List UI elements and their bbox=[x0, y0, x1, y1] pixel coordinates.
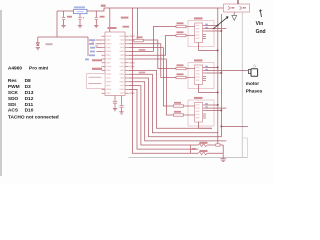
connector JP1 box bbox=[87, 74, 105, 89]
label L1 100uH bbox=[74, 6, 85, 8]
wire Q2 source down bbox=[199, 85, 218, 93]
svg-text:SDI: SDI bbox=[8, 102, 17, 108]
wire R1 to Q1 bbox=[186, 26, 191, 28]
wire cap gnd stub C1 bbox=[63, 20, 65, 25]
sheet frame step bbox=[242, 138, 247, 158]
label R6 bbox=[174, 111, 181, 113]
annotation arrow to connector bbox=[213, 17, 228, 29]
wire phase V out bbox=[206, 70, 248, 72]
label C3 value bbox=[100, 16, 105, 18]
label T1 name bbox=[194, 17, 203, 19]
net label BH bbox=[139, 72, 146, 74]
transistor pair Q1 body bbox=[195, 23, 203, 43]
svg-text:A4960: A4960 bbox=[8, 65, 22, 71]
X1 pin labels bbox=[231, 7, 246, 9]
wire R5 to Q3 bbox=[184, 105, 192, 107]
wire VBB to IC pin drop bbox=[109, 8, 111, 32]
label C1 value bbox=[67, 16, 72, 18]
wire sense SC bbox=[129, 78, 222, 137]
Q2 blue net tags bbox=[205, 66, 208, 71]
wire R3 to Q2 bbox=[186, 68, 191, 70]
U1 left pins bbox=[102, 36, 106, 93]
wire VBB rail mid bbox=[87, 8, 224, 11]
label R2 bbox=[177, 31, 184, 33]
label R3 bbox=[177, 64, 184, 66]
X1 pin 2 bbox=[240, 6, 242, 10]
Q2 pins bbox=[191, 68, 206, 81]
wire Q3 mid to rail B bbox=[206, 110, 221, 112]
wire left supply drop bbox=[56, 11, 58, 37]
svg-text:ACS: ACS bbox=[8, 108, 19, 114]
wire VBB long drop bbox=[132, 8, 198, 153]
svg-text:D10: D10 bbox=[25, 108, 34, 114]
label D1 bbox=[46, 43, 53, 45]
junction dots bbox=[217, 67, 222, 94]
Q1 inner text bbox=[196, 25, 200, 39]
vertical rail B bbox=[220, 14, 222, 137]
label VBB bbox=[101, 5, 106, 7]
FET block 2 group bbox=[176, 59, 248, 93]
wire cap stub C2 bbox=[79, 14, 81, 17]
U1 inner pin names left bbox=[106, 35, 111, 93]
wire Q3 source down bbox=[199, 122, 212, 128]
wire phase U out bbox=[206, 28, 226, 30]
svg-text:Res: Res bbox=[8, 78, 17, 84]
JP1 pin lines bbox=[89, 77, 102, 83]
Q1 pins bbox=[191, 26, 206, 39]
motor connector icon bbox=[248, 69, 257, 77]
U1 inner pin names right bbox=[119, 35, 124, 93]
svg-text:Vin: Vin bbox=[256, 21, 264, 27]
crystal caps near U1 bbox=[92, 42, 98, 47]
capacitor C5 under U1 right bbox=[120, 96, 124, 112]
svg-text:SCK: SCK bbox=[8, 90, 19, 96]
capacitor C1 bbox=[62, 18, 65, 20]
wire reset branch bbox=[38, 36, 88, 38]
transistor pair Q2 body bbox=[195, 65, 203, 85]
wire gate AL bbox=[129, 36, 176, 56]
ground D1 bbox=[36, 48, 40, 50]
halfbridge box 1 bbox=[188, 21, 214, 47]
ground C5 bbox=[119, 112, 123, 114]
wires U1 left pins bbox=[96, 40, 102, 51]
wire cap gnd stub C3 bbox=[95, 20, 97, 25]
wire gnd drop sense bbox=[222, 145, 224, 159]
label T2 name bbox=[194, 59, 203, 61]
sheet frame bottom line bbox=[129, 157, 248, 159]
annotation arrow from Vin text bbox=[260, 10, 262, 17]
wire R6 to Q3 bbox=[184, 114, 192, 116]
wire gate AH bbox=[129, 27, 176, 52]
label U1 name bbox=[108, 27, 117, 29]
wire phase return bbox=[129, 82, 227, 141]
wire gate BH bbox=[129, 40, 176, 69]
svg-text:D12: D12 bbox=[25, 96, 34, 102]
FET block 3 group bbox=[174, 97, 227, 128]
ground sense bbox=[220, 159, 226, 162]
wire R4 to Q2 bbox=[186, 77, 191, 79]
wire IC left vertical bbox=[87, 37, 89, 56]
net labels left of U1 bbox=[85, 39, 95, 60]
wire csense minus bbox=[129, 89, 199, 149]
op IC U1 A4960 body bbox=[105, 32, 125, 96]
Q3 pins bbox=[191, 105, 206, 118]
svg-text:D11: D11 bbox=[25, 102, 34, 108]
wire Q1 drain to rail bbox=[206, 25, 218, 27]
svg-text:D13: D13 bbox=[25, 90, 34, 96]
sense resistor R8 bbox=[198, 152, 207, 155]
wire cap stub C3 bbox=[95, 11, 97, 17]
wire R7 right bbox=[207, 144, 223, 146]
capacitor C6 horizontal bbox=[134, 39, 144, 42]
inductor L1 bbox=[74, 9, 88, 13]
Q3 inner text bbox=[196, 104, 200, 118]
right pin stub labels bbox=[130, 35, 135, 94]
wire R2 to Q1 bbox=[186, 35, 191, 37]
Q3 blue net tags bbox=[205, 103, 208, 108]
junction dots bbox=[217, 104, 222, 111]
U1 right pins bbox=[125, 36, 129, 93]
transistor pair Q3 body bbox=[195, 103, 203, 123]
wires U1 right to gate resistors bbox=[129, 27, 176, 116]
vertical rail A VBB right bbox=[217, 8, 219, 144]
svg-text:D8: D8 bbox=[25, 78, 31, 84]
X1 pin 1 bbox=[228, 6, 230, 10]
svg-text:TACHO not connected: TACHO not connected bbox=[8, 114, 59, 120]
wire Q1 source down bbox=[199, 43, 218, 51]
capacitor C3 bbox=[95, 18, 98, 20]
resistor R5 bbox=[174, 105, 184, 107]
svg-text:Phases: Phases bbox=[246, 88, 263, 93]
Q2 inner text bbox=[196, 67, 200, 81]
wire csense plus bbox=[129, 86, 199, 145]
svg-text:SDO: SDO bbox=[8, 96, 19, 102]
wire Vin top bbox=[237, 0, 239, 4]
label R9 bbox=[192, 148, 196, 150]
wire sense SA bbox=[129, 70, 212, 128]
label R1 bbox=[177, 22, 184, 24]
sheet frame vertical line bbox=[241, 13, 243, 158]
earth triangle bbox=[232, 16, 237, 21]
label R7 bbox=[200, 142, 208, 144]
capacitor C4 under U1 bbox=[113, 96, 117, 109]
ground C4 bbox=[113, 109, 117, 111]
svg-text:PWM: PWM bbox=[8, 84, 20, 90]
wire cap stub C1 bbox=[63, 11, 65, 17]
ground C2 bbox=[78, 25, 82, 27]
label R8 bbox=[200, 150, 208, 152]
net label AH bbox=[139, 49, 146, 51]
icon notch bbox=[253, 65, 255, 67]
wire cap gnd stub C2 bbox=[79, 20, 81, 25]
wire low rail out bbox=[221, 126, 248, 128]
label U1 value bbox=[123, 26, 130, 28]
wire gate CH bbox=[129, 48, 174, 106]
label JP1 net bbox=[92, 68, 102, 70]
connector X1 Vin box bbox=[224, 4, 250, 12]
capacitor C2 polarized bbox=[78, 17, 83, 19]
resistor R2 bbox=[176, 34, 186, 36]
halfbridge box 3 bbox=[188, 100, 214, 126]
halfbridge box 2 bbox=[188, 63, 214, 89]
wire sense SB bbox=[129, 74, 218, 133]
svg-text:Gnd: Gnd bbox=[256, 29, 266, 35]
wire VREG drop bbox=[137, 8, 139, 39]
label T3 name bbox=[194, 97, 203, 99]
sense resistor R7 bbox=[198, 143, 207, 146]
resistor R1 bbox=[176, 25, 186, 27]
wire diode stub bbox=[37, 37, 39, 43]
resistor R6 bbox=[174, 114, 184, 116]
Q1 blue net tags bbox=[205, 24, 208, 29]
FET block 1 group bbox=[176, 17, 226, 51]
wire Q3 drain to rail bbox=[206, 104, 218, 106]
ground C1 bbox=[61, 25, 65, 27]
resistor R3 bbox=[176, 67, 186, 69]
ground C3 bbox=[94, 25, 98, 27]
wire gate BL bbox=[129, 44, 176, 78]
bus wires U1 to bottom bbox=[129, 8, 227, 153]
svg-text:Pro mini: Pro mini bbox=[29, 65, 48, 71]
wire gate CL bbox=[129, 59, 174, 115]
svg-text:motor: motor bbox=[246, 81, 259, 86]
screenshot left window edge bbox=[0, 10, 2, 176]
svg-text:D3: D3 bbox=[25, 84, 31, 90]
junction dots bbox=[217, 25, 222, 52]
wire Q1 mid to rail B bbox=[206, 30, 221, 32]
wire R8 right bbox=[207, 152, 223, 154]
label R4 bbox=[177, 73, 184, 75]
label C6 bbox=[137, 36, 143, 38]
series element R10 bbox=[216, 144, 220, 146]
wire VBB rail left bbox=[57, 10, 74, 12]
wire gnd pin stub bbox=[233, 12, 235, 16]
label JP1 bbox=[92, 59, 102, 61]
label R5 bbox=[174, 102, 181, 104]
filter link R9 bbox=[189, 145, 191, 153]
diode D1 to ground bbox=[36, 43, 39, 46]
wire Q2 drain to rail bbox=[206, 67, 218, 69]
wire Q2 mid to rail B bbox=[206, 72, 221, 74]
junction low rail bbox=[221, 126, 223, 128]
wire phase W out bbox=[206, 107, 226, 109]
resistor R4 bbox=[176, 76, 186, 78]
label near U1 top right bbox=[121, 17, 129, 19]
